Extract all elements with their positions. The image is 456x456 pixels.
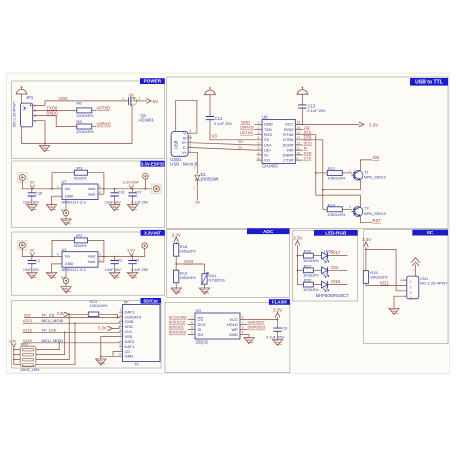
svg-text:IO0: IO0 [373,155,380,160]
ground symbol (GA1) [199,288,209,294]
svg-text:D-: D- [183,146,188,150]
section tag SD/Car [141,298,162,304]
wire T2 emitter to RST [360,216,372,223]
svg-text:D6: D6 [129,93,134,97]
wire T2 collector to A rail [356,195,361,207]
wire 3.3V rail IIC [365,247,367,271]
ground symbol (C1) [27,272,37,278]
svg-text:C1: C1 [35,259,40,263]
svg-text:3: 3 [122,97,124,101]
svg-text:MHP5050RGBCT: MHP5050RGBCT [316,293,349,298]
wire TP4 to rail [144,248,146,256]
svg-text:3: 3 [242,326,244,330]
svg-text:TF_CS: TF_CS [42,313,55,318]
svg-text:2: 2 [410,285,412,289]
svg-text:2: 2 [120,313,122,317]
svg-text:5V: 5V [30,248,35,252]
svg-text:1: 1 [349,169,351,173]
svg-text:D-: D- [239,145,244,150]
section frame POWER [12,81,165,159]
svg-text:0Ω±5%: 0Ω±5% [74,244,87,248]
svg-text:R6: R6 [76,101,82,106]
svg-text:GND: GND [65,194,74,198]
svg-text:1N5819W: 1N5819W [200,177,219,182]
svg-text:1MΩ±5%: 1MΩ±5% [179,248,196,253]
section tag FLASH [269,299,290,305]
test point S1 [63,210,69,216]
ground symbol (U1 GND) [46,272,56,278]
svg-text:IIC: IIC [427,230,434,235]
section tag POWER [140,78,165,84]
resistor R8 [77,124,92,129]
svg-text:TF: TF [124,300,130,305]
chassis ground dome (USB shield) [204,87,216,95]
wire GA1 to gnd [204,284,206,288]
svg-text:1KΩ±5%: 1KΩ±5% [303,258,319,263]
svg-text:10KΩ±5%: 10KΩ±5% [90,303,108,308]
pin stubs U8 right [295,124,323,160]
wire USB shield loop [176,100,197,133]
resistor R17 [303,263,319,277]
wire 3.3V to VCC junction [277,317,279,325]
svg-text:MCU_MISO: MCU_MISO [42,338,64,343]
wire C14 to V3 pin [210,123,255,140]
section frame IIC [364,230,449,344]
svg-text:VIN: VIN [65,255,70,259]
svg-text:TF: TF [134,361,139,366]
capacitor C9 [273,325,281,334]
svg-text:9: 9 [120,348,122,352]
wire JP3 to output rail [88,173,104,189]
svg-text:10uF 16V: 10uF 16V [23,268,40,272]
svg-text:2: 2 [99,185,101,189]
svg-text:100Ω±5%: 100Ω±5% [76,129,94,134]
svg-text:3: 3 [120,318,122,322]
wire CN1 pin4 to gnd [394,296,403,308]
svg-text:U0TXD: U0TXD [240,130,253,135]
svg-text:3.3V: 3.3V [362,237,371,242]
ground symbol (TF) [96,359,106,365]
LED LED1 blue [322,281,329,291]
wire USB D+ to CH340 UD+ [194,143,255,145]
svg-text:6: 6 [191,321,193,325]
connector CN1 [407,276,448,300]
test point S4 [63,278,69,284]
wire RTS vertical A [316,135,356,195]
section tag USB to TTL [410,78,448,86]
svg-text:1: 1 [120,308,122,312]
svg-text:3.3V-ESP: 3.3V-ESP [123,181,140,185]
section frame SD/Car [12,301,162,369]
svg-text:4: 4 [410,296,412,300]
wire R18 to junction IO34 [175,256,177,270]
wire TF_CLK row [23,331,123,334]
svg-text:GND: GND [125,354,134,359]
svg-text:7: 7 [120,338,122,342]
test point TP6 (pad) [152,184,162,194]
section tag 3.3V-INT [141,230,165,236]
ground symbol (C17) [132,199,134,205]
wire TXD0 to R6 [38,109,77,111]
pin stubs U1 out [98,257,104,262]
svg-text:R12: R12 [328,166,336,171]
svg-text:IO5: IO5 [24,313,31,318]
svg-text:Vout: Vout [88,187,97,191]
svg-text:3.3V: 3.3V [57,311,66,316]
svg-text:R8: R8 [76,119,82,124]
svg-text:CTS: CTS [304,157,312,161]
pin stubs USB1 [188,133,193,152]
resistor R16 [303,249,319,263]
section frame 3.3V-ESP32 [12,161,165,228]
svg-text:6: 6 [120,333,122,337]
capacitor C13 [298,102,306,111]
ground symbol (S4) [61,287,71,293]
pin stubs U4 left [188,320,195,335]
svg-text:SWP/SD3: SWP/SD3 [247,325,266,330]
svg-text:U0TXD: U0TXD [97,106,111,111]
pin stubs U8 left [255,124,263,160]
svg-text:RXD0: RXD0 [47,111,59,116]
svg-text:5: 5 [120,328,122,332]
wire U1 GND pin to gnd [52,264,63,272]
ground symbol (C16) [114,199,116,205]
svg-text:DCD: DCD [304,141,313,145]
resistor R19 [174,270,179,283]
svg-text:NPN_S9013: NPN_S9013 [364,175,387,180]
wire A to R12 [316,172,328,174]
capacitor C17 [128,190,136,199]
wire JP1 pin4 to ground rail [38,121,46,144]
svg-text:R14: R14 [328,202,336,207]
svg-text:CH340C: CH340C [262,163,278,168]
LED rail [297,245,299,284]
connector TF card socket [118,300,160,366]
wire 3.3V to R18 [175,242,177,244]
svg-text:GT36516: GT36516 [208,278,225,283]
svg-text:GND: GND [65,262,74,266]
svg-text:RTS: RTS [304,131,312,135]
IC U4 25Q32 [191,308,244,344]
wire R13 to CS line [99,314,118,317]
svg-text:10KΩ±5%: 10KΩ±5% [370,275,388,280]
wire USB D- to CH340 UD- [194,148,255,151]
svg-text:0.1uF 25V: 0.1uF 25V [131,200,149,204]
wires RN1 pullups to signal rows [36,314,75,364]
svg-text:3.3V: 3.3V [127,248,135,252]
svg-text:D+: D+ [239,139,245,144]
svg-text:3.3V: 3.3V [9,339,17,343]
power arrow 5V out [146,99,151,104]
svg-text:IO23: IO23 [23,318,33,323]
svg-text:SD/Car: SD/Car [143,298,158,303]
wire JP1 shield bottom [21,127,23,144]
wire C9 to gnd [277,334,279,339]
svg-text:MC-1.25-4PWT: MC-1.25-4PWT [420,281,448,286]
wire LED red to IO17 [328,255,348,257]
svg-text:D+: D+ [182,141,188,145]
output rail 3.3V-ESP [104,188,152,190]
svg-text:ID: ID [183,136,187,140]
wire Q1 drain to 5V [138,100,147,102]
svg-text:25Q32: 25Q32 [196,339,209,344]
svg-text:2: 2 [193,186,195,190]
svg-text:SO: SO [198,332,204,337]
wire U4 GND pin to gnd [248,335,250,338]
svg-text:10uF 16V: 10uF 16V [105,268,122,272]
svg-text:U7: U7 [62,179,68,184]
svg-text:1: 1 [410,280,412,284]
svg-text:10KΩ_x5%: 10KΩ_x5% [20,368,40,372]
wire DTR vertical B [322,140,324,210]
ground rail POWER [22,143,133,145]
svg-text:VDC: VDC [59,96,69,101]
svg-text:IO16: IO16 [331,279,341,284]
wire T1 emitter to B rail [323,180,361,190]
svg-text:3.3V: 3.3V [98,325,107,330]
section frame USB to TTL [167,77,448,229]
capacitor C2 [110,258,118,267]
svg-text:0.1uF 25V: 0.1uF 25V [307,108,326,113]
svg-text:V3: V3 [212,134,218,139]
svg-text:NPN_S9013: NPN_S9013 [364,211,387,216]
test point TP2 [143,174,149,180]
capacitor C3 [128,258,136,267]
svg-text:AO3401: AO3401 [139,118,155,123]
wire IO34 branch [176,263,204,265]
svg-text:4: 4 [120,323,122,327]
wire RXD0 to R8 [38,116,77,127]
output rail 3.3V [104,256,145,258]
wire U7 bottom to S1 [65,200,67,211]
section tag ADC [247,228,290,234]
section frame 3.3V-INT [12,232,165,295]
pin stubs TF [119,312,122,356]
svg-text:2: 2 [99,253,101,257]
wire R20 to LED blue [313,284,321,286]
wire TP3 to input rail [22,248,62,256]
svg-text:10uF 16V: 10uF 16V [105,200,122,204]
wire R17 to LED green [313,269,321,271]
test point TP3 [18,240,28,250]
svg-text:C16: C16 [118,191,125,195]
svg-text:C15: C15 [35,191,42,195]
capacitor C14 [206,114,214,123]
wire MCU_MOSI row [23,322,123,323]
resistor network RN1 [13,343,40,373]
ground symbol POWER [39,146,49,152]
svg-text:4: 4 [99,190,101,194]
svg-text:3: 3 [410,291,412,295]
svg-text:U0RXD: U0RXD [97,122,111,127]
resistor R12 [327,170,342,175]
transistor Q1 [122,93,154,123]
pin stubs CN1 [403,280,407,296]
svg-text:5V: 5V [196,199,201,204]
svg-text:C2: C2 [118,258,123,262]
svg-text:1: 1 [193,166,195,170]
test point TP1 [18,173,28,183]
svg-text:V+: V+ [182,151,188,155]
svg-text:TF_CLK: TF_CLK [42,327,57,332]
svg-text:1MΩ±5%: 1MΩ±5% [179,275,196,280]
resistor R18 [174,244,179,257]
svg-text:R20: R20 [304,278,312,283]
wire Q1 gate to ground rail [131,108,133,144]
wire LED green to IO4 [328,269,348,271]
svg-text:DSR: DSR [304,152,312,156]
wire arrow to CN1 pin1 [401,265,416,281]
svg-text:U1: U1 [62,247,68,252]
svg-text:JP2: JP2 [76,233,83,238]
wire dome to C13 [301,94,303,102]
test point TP4 [142,243,148,249]
svg-text:MC-1.25-4PWT: MC-1.25-4PWT [12,101,16,127]
svg-text:MCU_MOSI: MCU_MOSI [42,318,64,323]
wire C13 to VCC rail [301,111,303,124]
section frame LED-RGB [293,231,358,301]
ground symbol (C3) [132,267,134,273]
wire dome to C14 [209,95,211,114]
svg-text:Vout: Vout [88,260,97,264]
wire R6 to U0TXD [92,109,96,111]
svg-text:JP1: JP1 [26,95,34,100]
svg-text:LED-RGB: LED-RGB [325,230,347,235]
svg-text:R17: R17 [304,263,312,268]
svg-text:S1: S1 [61,209,65,213]
wire S1 to gnd [65,216,67,219]
wire U1 bottom to S4 [65,267,67,278]
chassis ground dome (POWER input) [16,86,28,94]
svg-text:3.3V-ESP32: 3.3V-ESP32 [141,161,165,166]
regulator U1 [57,247,102,272]
connector JP1 [12,95,37,127]
wire 3.3V to VDD pin [112,327,122,329]
wire rail to R17 [298,269,304,271]
wire B to R14 [323,208,328,210]
svg-text:1: 1 [191,316,193,320]
wire T1 collector to IO0 [360,160,372,171]
svg-text:1KΩ±5%: 1KΩ±5% [303,287,319,292]
wire MCU_MISO row [23,342,123,343]
wire R16 to LED red [313,255,321,257]
svg-text:3.3V: 3.3V [369,122,378,127]
svg-text:5V: 5V [30,181,35,185]
svg-text:10KΩ±5%: 10KΩ±5% [327,176,345,181]
wire TP1 to input rail [22,181,62,189]
wire TP2 to rail [144,179,146,189]
svg-text:AMS1117-3.3: AMS1117-3.3 [62,267,87,272]
ground symbol (R19) [171,288,181,294]
svg-text:SDO/SD0: SDO/SD0 [169,330,187,335]
svg-text:R16: R16 [304,249,312,254]
LED LED1 red [322,252,329,262]
svg-text:CTS#: CTS# [283,158,294,163]
svg-text:IO34: IO34 [184,259,194,264]
regulator U7 [57,179,102,204]
svg-text:IO4: IO4 [331,265,338,270]
svg-text:AMS1117-3.3: AMS1117-3.3 [62,199,87,204]
wire VCC to 3.3V [295,123,359,125]
svg-text:VIN: VIN [65,187,70,191]
capacitor C1 [28,258,36,267]
svg-text:+: + [413,269,415,273]
transistor T1 [351,170,363,180]
junction C1 [31,256,33,258]
svg-text:5: 5 [191,326,193,330]
wire R12 to T1 base [342,172,352,174]
ground symbol (C15) [27,205,37,211]
svg-text:3: 3 [57,253,59,257]
svg-text:7: 7 [242,321,244,325]
jumper resistor JP2 [51,256,53,258]
wire R8 to U0RXD [92,126,96,128]
svg-text:Vout: Vout [88,255,97,259]
svg-text:U8: U8 [262,115,268,120]
svg-text:FLASH: FLASH [272,300,287,305]
wire R19 to gnd [175,283,177,288]
wire USB V+ to D1 [194,152,198,174]
svg-text:Vout: Vout [88,193,97,197]
pin stubs U7 out [98,189,104,194]
svg-text:RI: RI [304,146,308,150]
svg-text:DTR: DTR [304,136,312,140]
svg-text:5V: 5V [153,99,160,104]
wire S4 to gnd [65,284,67,287]
svg-text:POWER: POWER [144,79,162,84]
resistor R14 [327,207,342,212]
wire C1 to gnd [31,267,33,273]
svg-text:0.1uF 25V: 0.1uF 25V [131,268,149,272]
ground symbol (C9) [272,339,282,345]
svg-text:3: 3 [57,185,59,189]
wire LED blue to IO16 [328,284,348,286]
svg-text:IO21: IO21 [380,281,390,286]
svg-text:0Ω±5%: 0Ω±5% [74,176,87,180]
wire C15 to gnd [31,199,33,205]
wire TF_CS row [24,316,123,319]
wire dome to JP1 shield [21,94,23,103]
diode D1 [193,166,218,190]
svg-text:3.3V-INT: 3.3V-INT [144,230,161,235]
svg-text:10uF 16V: 10uF 16V [23,200,40,204]
wire branch to CN1 pin3 [366,249,403,290]
resistor R15 [363,271,368,284]
svg-text:U4: U4 [196,308,202,313]
svg-text:4: 4 [99,258,101,262]
varistor GA1 [204,264,206,274]
resistor R20 [303,278,319,292]
svg-text:USB to TTL: USB to TTL [415,80,443,86]
section frame FLASH [165,302,290,372]
svg-text:232: 232 [304,126,310,130]
ground symbol (S1) [61,219,71,225]
ground symbol (U4) [244,338,254,344]
wire R15 to IO21 line [366,283,403,285]
svg-text:0.1uF 25V: 0.1uF 25V [214,121,233,126]
svg-text:8: 8 [242,316,244,320]
resistor R6 [77,108,92,113]
svg-text:100Ω±5%: 100Ω±5% [76,113,94,118]
wire VDC net [38,101,125,106]
svg-text:ADC: ADC [263,229,274,234]
ground symbol (U7 GND) [46,205,56,211]
svg-text:JP3: JP3 [76,165,84,170]
wire R14 to T2 base [342,208,352,210]
svg-text:10KΩ±5%: 10KΩ±5% [327,212,345,217]
power arrow 3.3V (CH340 VCC) [359,122,364,127]
svg-text:10: 10 [118,352,122,356]
